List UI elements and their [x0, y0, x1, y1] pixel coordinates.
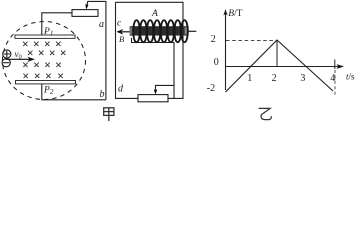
rheostat R1 box — [72, 10, 98, 17]
wire bottom to P2 — [42, 84, 106, 100]
svg-text:-2: -2 — [207, 83, 215, 94]
svg-text:1: 1 — [247, 73, 252, 84]
peak drop line t=2 — [276, 41, 278, 67]
dashed level B=2 — [226, 40, 277, 42]
svg-text:B: B — [119, 34, 124, 44]
label 乙 (drawn strokes) — [259, 108, 272, 119]
capacitor plate P2 — [16, 81, 76, 84]
svg-text:3: 3 — [300, 73, 305, 84]
solenoid A coil loops — [133, 20, 188, 42]
svg-text:A: A — [151, 9, 158, 19]
field direction arrow B — [117, 29, 130, 35]
svg-text:2: 2 — [211, 34, 216, 45]
svg-text:0: 0 — [214, 57, 219, 68]
graph x-axis t/s — [226, 64, 345, 69]
dashed field-region circle — [3, 22, 86, 100]
svg-text:B/T: B/T — [228, 9, 242, 19]
positive particle symbol — [3, 50, 11, 58]
negative particle symbol — [2, 59, 10, 67]
svg-text:2: 2 — [272, 73, 277, 84]
graph y-axis B/T — [223, 9, 227, 90]
rheostat R2 box — [138, 95, 168, 102]
field cross marks (B into page) — [23, 42, 66, 78]
core extension line — [187, 30, 196, 32]
rheostat R1 slider arrow — [85, 1, 88, 9]
svg-text:t/s: t/s — [346, 71, 355, 81]
svg-text:P1: P1 — [43, 27, 53, 38]
iron core bar — [130, 26, 187, 35]
coil lead wire — [132, 38, 175, 99]
velocity arrow v0 — [6, 57, 36, 62]
B(t) waveform — [226, 40, 334, 92]
svg-text:P2: P2 — [43, 86, 54, 97]
svg-text:b: b — [100, 89, 105, 100]
wire top to terminal a side — [88, 1, 106, 99]
secondary coil circuit box — [116, 2, 184, 98]
svg-text:a: a — [99, 19, 104, 30]
dashed drop at t=4 — [334, 70, 336, 96]
label 甲 (drawn strokes) — [104, 108, 114, 121]
rheostat R2 slider arrow — [154, 85, 174, 94]
t=4 tick — [334, 60, 336, 70]
wire from P1 up — [42, 13, 72, 35]
capacitor plate P1 — [15, 35, 75, 38]
